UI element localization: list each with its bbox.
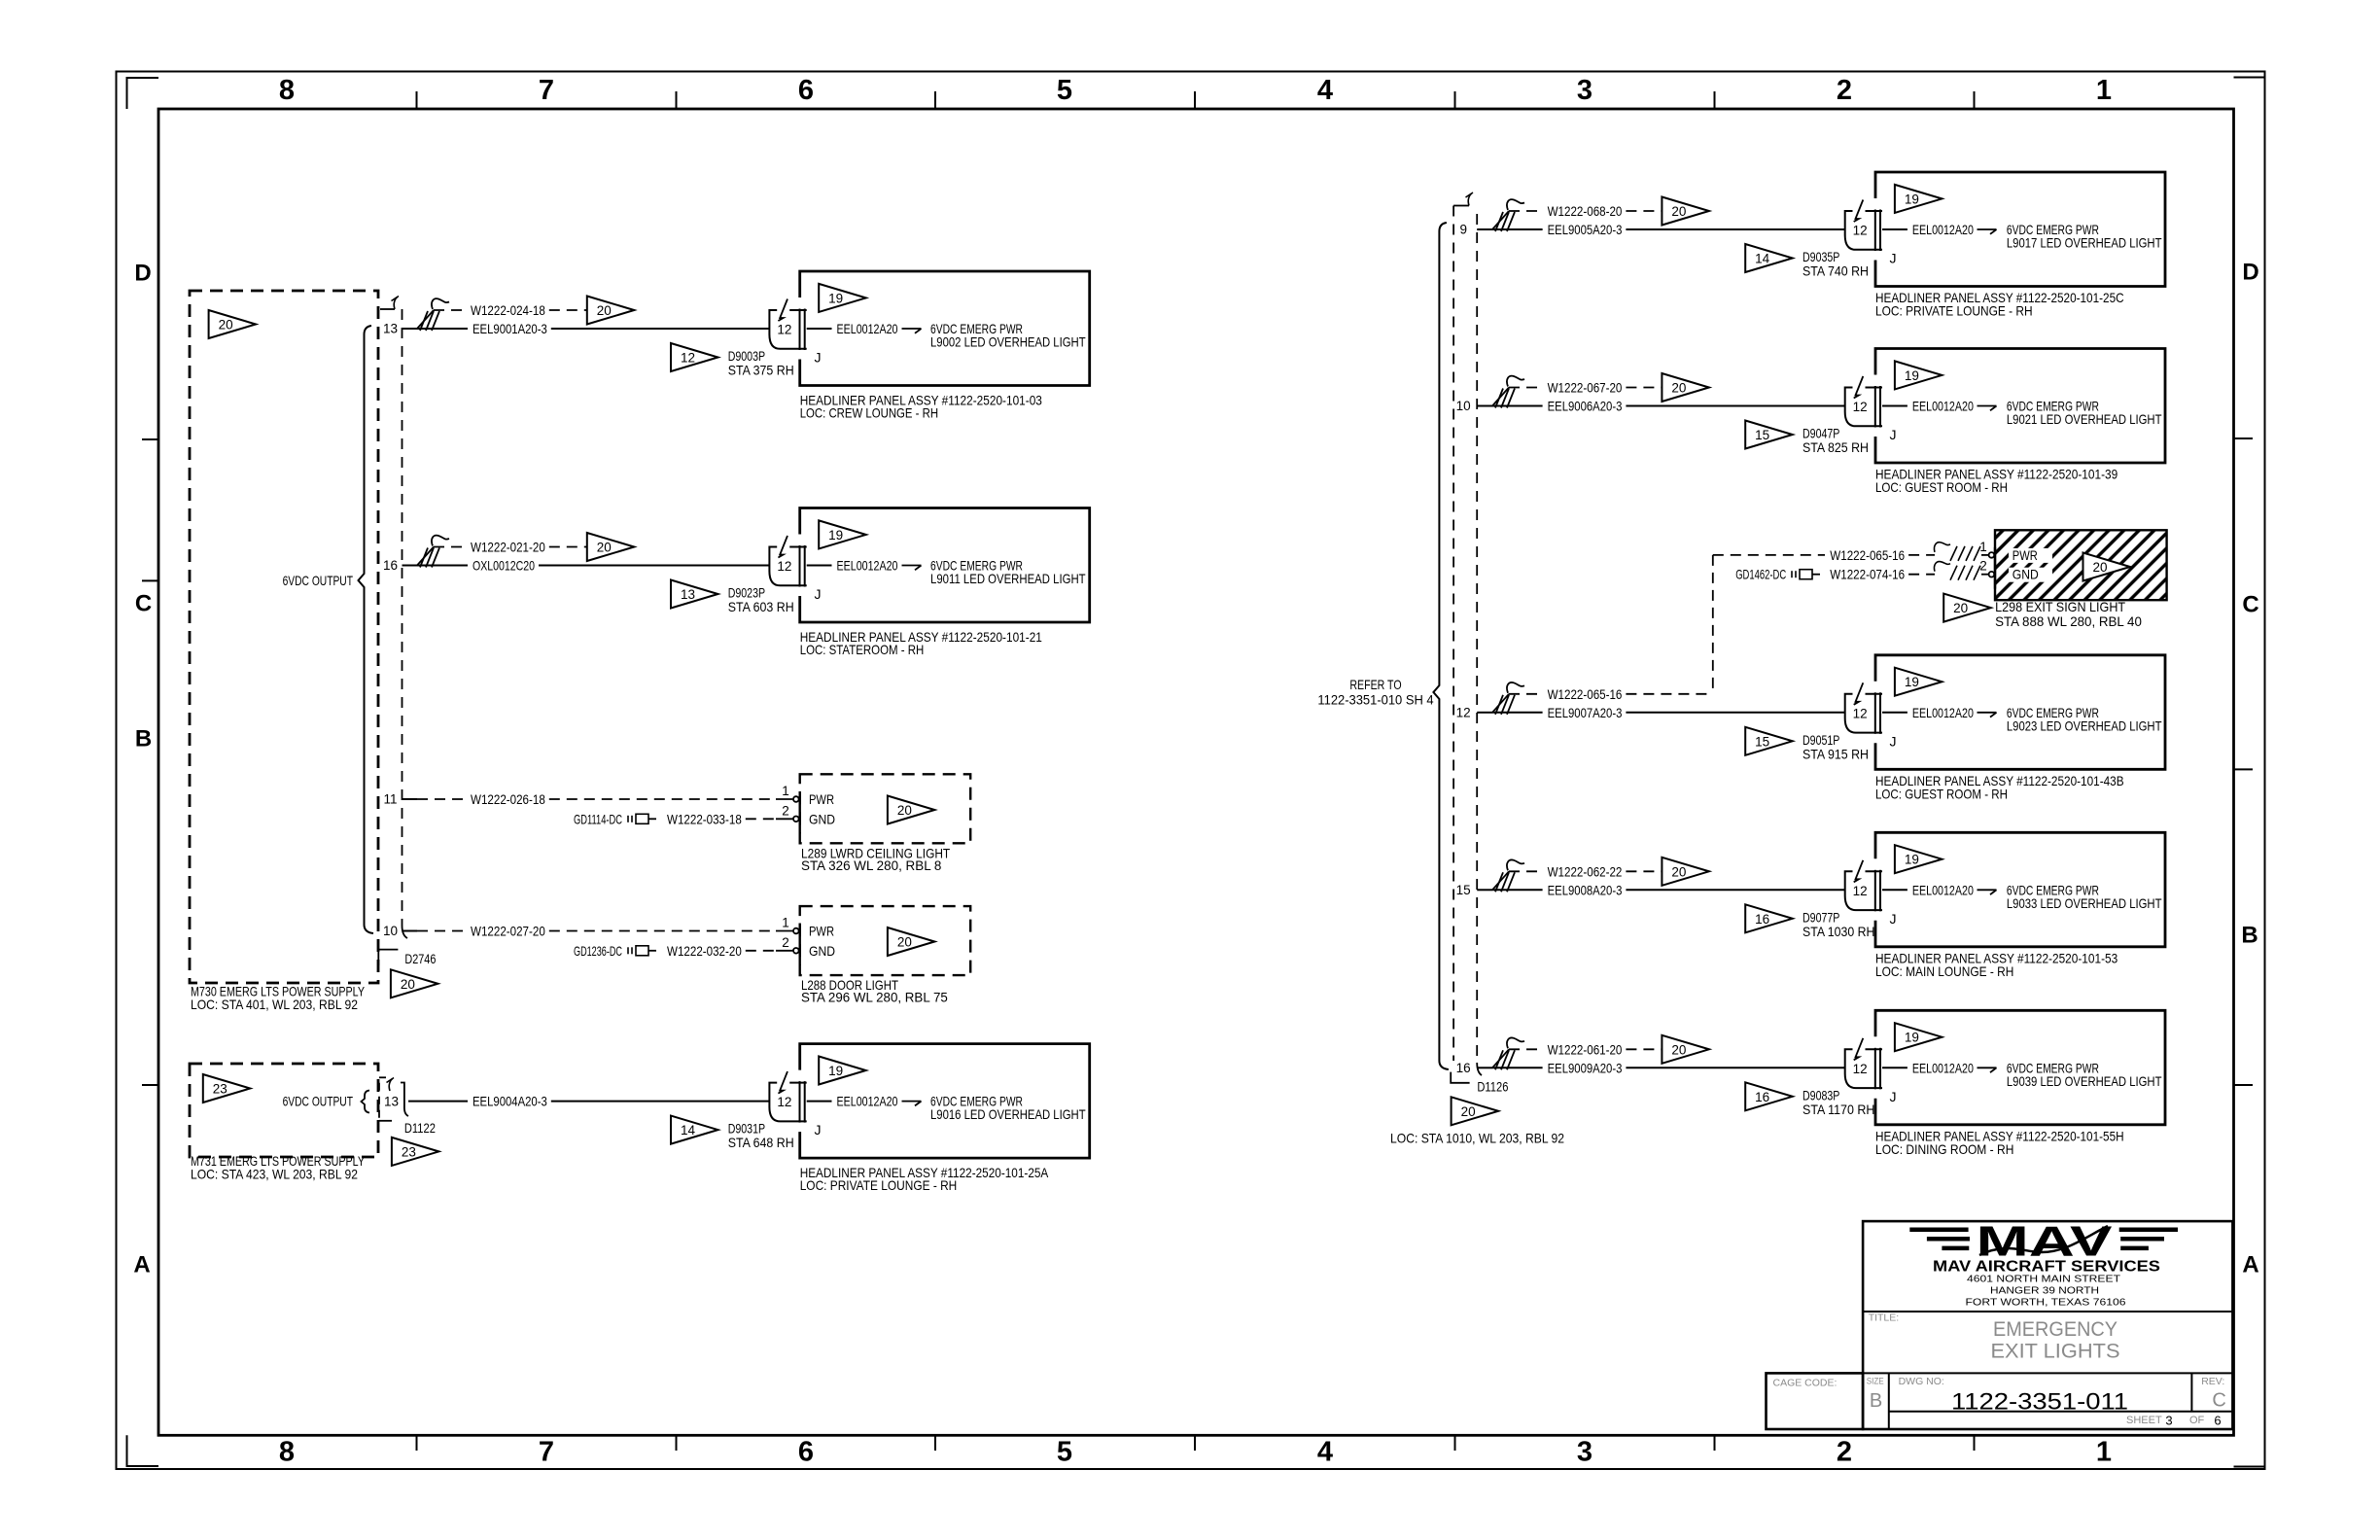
svg-text:L9039 LED OVERHEAD LIGHT: L9039 LED OVERHEAD LIGHT	[2007, 1073, 2162, 1089]
wire EEL9007A20-3 to connector	[1626, 712, 1844, 714]
svg-text:J: J	[815, 586, 822, 602]
bracket close D1122	[401, 1083, 408, 1117]
svg-text:STA 888 WL 280, RBL 40: STA 888 WL 280, RBL 40	[1995, 613, 2142, 629]
svg-text:15: 15	[1755, 428, 1769, 442]
svg-text:1122-3351-010 SH 4: 1122-3351-010 SH 4	[1317, 692, 1433, 708]
power supply M730 box	[190, 291, 378, 983]
headliner panel box L9023	[1875, 655, 2165, 770]
svg-text:EEL0012A20: EEL0012A20	[837, 558, 898, 574]
svg-text:2: 2	[1837, 75, 1852, 106]
svg-text:STA 915 RH: STA 915 RH	[1802, 746, 1869, 761]
wire W1222-026-18 dashed to light	[549, 798, 776, 800]
svg-text:W1222-021-20: W1222-021-20	[471, 540, 545, 555]
svg-text:W1222-067-20: W1222-067-20	[1548, 380, 1623, 396]
shield drain at pin D9083P	[1492, 1049, 1509, 1067]
svg-text:LOC: DINING ROOM - RH: LOC: DINING ROOM - RH	[1875, 1141, 2013, 1157]
svg-text:6VDC OUTPUT: 6VDC OUTPUT	[283, 573, 354, 588]
headliner panel box L9011	[800, 508, 1090, 623]
wire EEL0012A20 from connector	[1882, 228, 1907, 230]
svg-text:PWR: PWR	[809, 791, 834, 807]
connector D9003P pin 12 symbol	[789, 309, 807, 311]
svg-text:16: 16	[383, 558, 398, 573]
flag 15 for D9051P	[1745, 727, 1793, 755]
svg-text:OXL0012C20: OXL0012C20	[472, 558, 535, 574]
svg-text:1: 1	[1979, 540, 1987, 554]
arrow to 6VDC EMERG PWR	[902, 1101, 922, 1102]
wire W1222-033-18 dashed	[746, 818, 776, 820]
wire W1222-067-20 dashed cont	[1626, 387, 1662, 389]
svg-text:STA 326 WL 280, RBL 8: STA 326 WL 280, RBL 8	[801, 857, 942, 873]
arrow to 6VDC EMERG PWR	[1977, 1067, 1997, 1068]
connector D9051P pin 12 symbol	[1866, 693, 1883, 695]
svg-text:J: J	[815, 1122, 822, 1137]
svg-text:L9011 LED OVERHEAD LIGHT: L9011 LED OVERHEAD LIGHT	[930, 571, 1086, 586]
svg-text:19: 19	[1905, 192, 1919, 206]
svg-text:PWR: PWR	[809, 924, 834, 939]
connector D9077P pin 12 symbol	[1866, 870, 1883, 872]
svg-text:12: 12	[777, 559, 791, 574]
svg-text:10: 10	[1456, 399, 1471, 413]
svg-text:MAV AIRCRAFT SERVICES: MAV AIRCRAFT SERVICES	[1933, 1258, 2160, 1275]
wire EEL0012A20 from connector	[807, 328, 832, 330]
svg-text:W1222-033-18: W1222-033-18	[667, 811, 742, 826]
svg-text:12: 12	[1853, 1062, 1868, 1076]
rail top corner break M730	[380, 308, 395, 310]
svg-text:LOC: PRIVATE LOUNGE - RH: LOC: PRIVATE LOUNGE - RH	[1875, 303, 2033, 319]
flag 20 on W1222-062-22	[1662, 857, 1709, 886]
connector D9047P pin 12 symbol	[1866, 387, 1883, 389]
svg-text:4601 NORTH MAIN STREET: 4601 NORTH MAIN STREET	[1967, 1275, 2120, 1285]
svg-text:J: J	[1890, 733, 1897, 749]
right zone tick marks	[2234, 437, 2254, 439]
wire EEL9005A20-3 to connector	[1626, 228, 1844, 230]
flag 12 for D9003P	[671, 343, 718, 371]
svg-text:EEL0012A20: EEL0012A20	[837, 321, 898, 336]
svg-text:12: 12	[1853, 706, 1868, 720]
svg-text:W1222-068-20: W1222-068-20	[1548, 203, 1623, 219]
connector D1126 rail 2	[1476, 214, 1478, 1063]
flag 13 for D9023P	[671, 580, 718, 609]
svg-text:GD1114-DC: GD1114-DC	[574, 811, 622, 826]
flag 14 for D9035P	[1745, 244, 1793, 272]
dwg rev divider	[2190, 1373, 2192, 1411]
svg-text:20: 20	[1671, 381, 1686, 396]
svg-text:12: 12	[1853, 884, 1868, 898]
wire EEL9009A20-3 to connector	[1626, 1067, 1844, 1068]
svg-text:STA 375 RH: STA 375 RH	[728, 363, 794, 378]
svg-text:LOC: STA 1010, WL 203, RBL 92: LOC: STA 1010, WL 203, RBL 92	[1390, 1130, 1564, 1145]
svg-text:1: 1	[2096, 1437, 2112, 1468]
headliner panel box L9033	[1875, 832, 2165, 947]
arrow to 6VDC EMERG PWR	[1977, 228, 1997, 230]
svg-text:20: 20	[597, 541, 612, 555]
wire EEL0012A20 from connector	[1882, 889, 1907, 891]
sheet strip divider	[1889, 1411, 2233, 1413]
flag 20 on W1222-061-20	[1662, 1035, 1709, 1064]
connector D1126 rail 1	[1452, 206, 1454, 1062]
svg-text:20: 20	[401, 977, 415, 992]
flag 20 in M730	[209, 310, 257, 338]
svg-text:12: 12	[1853, 224, 1868, 238]
headliner panel box L9002	[800, 271, 1090, 386]
wire EEL0012A20 from connector	[1882, 405, 1907, 407]
label GND exit	[2009, 568, 2052, 582]
wire W1222-065-16 dashed to corner	[1626, 693, 1712, 695]
svg-text:20: 20	[897, 935, 912, 950]
MAV logo speed lines right	[2119, 1228, 2178, 1233]
svg-text:1: 1	[2096, 75, 2112, 106]
svg-text:EEL9006A20-3: EEL9006A20-3	[1548, 399, 1623, 414]
shield drain at pin D9047P	[1492, 388, 1509, 406]
flag 20 in exit box	[2083, 553, 2131, 581]
svg-text:L9016 LED OVERHEAD LIGHT: L9016 LED OVERHEAD LIGHT	[930, 1106, 1086, 1122]
flag 19 in L9011 box	[819, 520, 866, 548]
headliner panel box L9017	[1875, 172, 2165, 287]
svg-text:LOC: CREW LOUNGE - RH: LOC: CREW LOUNGE - RH	[800, 405, 938, 421]
wire W1222-024-18 dashed cont	[549, 309, 587, 311]
svg-text:20: 20	[897, 803, 912, 818]
svg-text:19: 19	[1905, 853, 1919, 867]
svg-text:W1222-061-20: W1222-061-20	[1548, 1041, 1623, 1057]
svg-text:1: 1	[782, 784, 789, 798]
svg-text:2: 2	[1979, 559, 1987, 574]
svg-text:FORT WORTH, TEXAS 76106: FORT WORTH, TEXAS 76106	[1966, 1298, 2127, 1309]
wire W1222-061-20 dashed	[1509, 1048, 1543, 1050]
svg-text:20: 20	[597, 303, 612, 318]
svg-text:11: 11	[383, 792, 397, 807]
svg-text:10: 10	[383, 924, 398, 938]
shield drain at pin D9051P	[1492, 694, 1509, 713]
flag 15 for D9047P	[1745, 421, 1793, 449]
headliner panel box L9039	[1875, 1010, 2165, 1125]
shield pigtail symbol GD1236-DC	[627, 947, 629, 954]
title block title divider	[1863, 1372, 2232, 1374]
top zone tick marks	[416, 91, 418, 109]
brace 6VDC OUTPUT M730	[359, 326, 374, 933]
brace refer-to D1126	[1433, 223, 1449, 1069]
connector D9083P pin 12 symbol	[1866, 1048, 1883, 1050]
svg-text:EEL9008A20-3: EEL9008A20-3	[1548, 882, 1623, 897]
svg-text:3: 3	[1577, 75, 1592, 106]
flag 20 on W1222-021-20	[587, 533, 635, 561]
svg-text:16: 16	[1755, 912, 1769, 927]
svg-text:L298 EXIT SIGN LIGHT: L298 EXIT SIGN LIGHT	[1995, 599, 2125, 614]
wire W1222-026-18 tail	[776, 798, 792, 800]
svg-text:23: 23	[213, 1082, 227, 1097]
brace pin 13 M731	[362, 1091, 370, 1113]
svg-text:4: 4	[1317, 1437, 1333, 1468]
svg-text:5: 5	[1057, 1437, 1072, 1468]
headliner panel box L9021	[1875, 349, 2165, 464]
wire W1222-032-20 dashed	[746, 950, 776, 952]
svg-text:19: 19	[828, 528, 843, 542]
svg-text:B: B	[2241, 923, 2257, 949]
svg-text:16: 16	[1755, 1090, 1769, 1104]
svg-text:EXIT LIGHTS: EXIT LIGHTS	[1991, 1341, 2120, 1363]
svg-text:J: J	[1890, 427, 1897, 442]
shield drain at pin D9077P	[1492, 871, 1509, 890]
svg-text:19: 19	[828, 291, 843, 305]
svg-text:D1122: D1122	[404, 1120, 436, 1136]
svg-text:B: B	[135, 726, 152, 752]
connector D9023P pin 12 symbol	[789, 546, 807, 548]
pin 13 stub	[402, 328, 418, 330]
svg-text:REFER TO: REFER TO	[1349, 677, 1401, 692]
wire W1222-024-18 dashed	[434, 309, 466, 311]
flag 19 in L9002 box	[819, 284, 866, 312]
rail bottom hook D1126	[1477, 1063, 1482, 1075]
wire W1222-062-22 dashed	[1509, 870, 1543, 872]
svg-text:C: C	[2242, 592, 2258, 618]
svg-text:D2746: D2746	[404, 951, 436, 966]
flag 20 on W1222-068-20	[1662, 197, 1709, 226]
flag 20 on W1222-067-20	[1662, 373, 1709, 402]
svg-text:J: J	[1890, 251, 1897, 266]
wire EEL0012A20 from connector	[807, 1101, 832, 1102]
connector D1126 corner mark	[1451, 1072, 1469, 1083]
shield slashes GND	[1934, 562, 1950, 572]
svg-text:STA 1030 RH: STA 1030 RH	[1802, 924, 1874, 939]
svg-text:14: 14	[681, 1123, 696, 1137]
size box divider	[1888, 1373, 1890, 1429]
svg-text:LOC: STA 401, WL 203, RBL 92: LOC: STA 401, WL 203, RBL 92	[191, 997, 358, 1012]
svg-text:12: 12	[1853, 400, 1868, 414]
wire W1222-067-20 dashed	[1509, 387, 1543, 389]
svg-text:20: 20	[1671, 1042, 1686, 1057]
svg-text:3: 3	[1577, 1437, 1592, 1468]
svg-text:16: 16	[1456, 1061, 1471, 1075]
flag 19 in L9023 box	[1895, 668, 1942, 696]
wire EEL9001A20-3 solid	[417, 328, 468, 330]
rail bottom hook M730	[402, 926, 408, 938]
svg-text:6VDC OUTPUT: 6VDC OUTPUT	[283, 1093, 354, 1108]
svg-text:20: 20	[1953, 601, 1968, 615]
label PWR exit	[2009, 548, 2052, 563]
wire EEL9004A20-3 solid	[408, 1101, 468, 1102]
svg-text:EEL0012A20: EEL0012A20	[1912, 705, 1974, 720]
svg-text:PWR: PWR	[2012, 547, 2038, 563]
svg-text:LOC: GUEST ROOM - RH: LOC: GUEST ROOM - RH	[1875, 479, 2008, 495]
svg-text:6: 6	[798, 1437, 814, 1468]
svg-text:GND: GND	[809, 943, 835, 959]
wire W1222-068-20 dashed	[1509, 210, 1543, 212]
exit sign left edge solid	[1994, 547, 1996, 589]
flag 23 in M731	[203, 1074, 250, 1102]
svg-text:L9023 LED OVERHEAD LIGHT: L9023 LED OVERHEAD LIGHT	[2007, 717, 2162, 733]
pin 15 stub	[1477, 889, 1492, 891]
pin 16 stub	[1477, 1067, 1492, 1068]
corner mark top-right	[2234, 78, 2265, 110]
wire W1222-033-18 tail	[776, 818, 792, 820]
svg-text:15: 15	[1456, 883, 1471, 897]
pin 1 circle	[793, 796, 799, 802]
svg-text:EEL0012A20: EEL0012A20	[1912, 882, 1974, 897]
svg-text:23: 23	[402, 1144, 416, 1159]
bottom zone tick marks	[416, 1435, 418, 1451]
svg-text:6: 6	[798, 75, 814, 106]
svg-text:STA 825 RH: STA 825 RH	[1802, 439, 1869, 455]
svg-text:STA 296 WL 280, RBL 75: STA 296 WL 280, RBL 75	[801, 990, 948, 1005]
svg-text:5: 5	[1057, 75, 1072, 106]
flag 19 in L9033 box	[1895, 845, 1942, 873]
wire W1222-032-20 tail	[776, 950, 792, 952]
shield pigtail symbol GD1114-DC	[627, 816, 629, 822]
svg-text:D: D	[134, 261, 151, 287]
svg-text:W1222-065-16: W1222-065-16	[1830, 547, 1905, 563]
pin 11 stub	[402, 798, 418, 800]
pin 12 stub	[1477, 712, 1492, 714]
svg-text:EEL0012A20: EEL0012A20	[1912, 222, 1974, 237]
svg-text:OF: OF	[2189, 1415, 2205, 1426]
connector D9035P pin 12 symbol	[1866, 210, 1883, 212]
svg-text:13: 13	[384, 1095, 399, 1109]
headliner panel box L9016	[800, 1044, 1090, 1159]
wire dashed after label GND	[1908, 574, 1935, 576]
flag 19 in L9017 box	[1895, 185, 1942, 213]
svg-text:D: D	[2242, 260, 2258, 286]
pin 2 circle exit	[1989, 572, 1995, 577]
flag 16 for D9077P	[1745, 904, 1793, 932]
corner mark bottom-left	[127, 1435, 159, 1466]
wire W1222-027-20 tail	[776, 930, 792, 932]
pin 1 circle exit	[1989, 552, 1995, 558]
wire W1222-027-20 dashed to light	[549, 930, 776, 932]
flag 23 below M731	[392, 1137, 439, 1166]
svg-text:STA 740 RH: STA 740 RH	[1802, 263, 1869, 279]
power supply M731 box	[190, 1064, 378, 1157]
corner mark top-left	[127, 78, 159, 109]
svg-text:W1222-024-18: W1222-024-18	[471, 302, 545, 318]
svg-text:1122-3351-011: 1122-3351-011	[1951, 1388, 2128, 1415]
svg-text:STA 1170 RH: STA 1170 RH	[1802, 1102, 1874, 1117]
svg-text:3: 3	[2165, 1414, 2172, 1428]
wire W1222-065-16 vertical dashed	[1712, 555, 1714, 694]
wire EEL9001A20-3 to connector	[551, 328, 770, 330]
shield drain at pin D9003P	[417, 310, 434, 329]
svg-text:A: A	[2242, 1252, 2258, 1278]
svg-text:6: 6	[2214, 1414, 2221, 1428]
svg-text:EEL9005A20-3: EEL9005A20-3	[1548, 222, 1623, 237]
svg-text:12: 12	[777, 323, 791, 337]
svg-text:EEL0012A20: EEL0012A20	[837, 1094, 898, 1109]
svg-text:J: J	[1890, 1089, 1897, 1104]
svg-text:LOC: GUEST ROOM - RH: LOC: GUEST ROOM - RH	[1875, 786, 2008, 801]
svg-text:W1222-074-16: W1222-074-16	[1830, 567, 1905, 582]
arrow to 6VDC EMERG PWR	[1977, 889, 1997, 891]
flag 20 in L289 LWRD CEILING LIGHT	[888, 796, 935, 824]
connector D9031P pin 12 symbol	[789, 1082, 807, 1084]
MAV logo speed lines left	[1909, 1228, 1968, 1233]
svg-text:12: 12	[1456, 705, 1471, 719]
svg-text:GD1236-DC: GD1236-DC	[574, 943, 622, 959]
svg-text:C: C	[135, 591, 152, 617]
shield drain at pin D9035P	[1492, 211, 1509, 229]
svg-text:12: 12	[681, 351, 695, 366]
svg-text:W1222-062-22: W1222-062-22	[1548, 863, 1623, 879]
wire EEL9008A20-3 solid	[1492, 889, 1543, 891]
svg-text:2: 2	[782, 935, 789, 950]
rail top corner break D1126	[1453, 205, 1469, 207]
flag 20 in L288 DOOR LIGHT	[888, 927, 935, 956]
arrow to 6VDC EMERG PWR	[902, 565, 922, 567]
flag 20 at L298 label	[1943, 594, 1991, 622]
svg-text:L9017 LED OVERHEAD LIGHT: L9017 LED OVERHEAD LIGHT	[2007, 235, 2162, 251]
svg-text:STA 603 RH: STA 603 RH	[728, 599, 794, 614]
pin 10 stub	[1477, 405, 1492, 407]
wire EEL9005A20-3 solid	[1492, 228, 1543, 230]
pin 2 circle	[793, 817, 799, 822]
svg-text:TITLE:: TITLE:	[1869, 1312, 1900, 1324]
svg-text:W1222-065-16: W1222-065-16	[1548, 686, 1623, 702]
svg-text:CAGE CODE:: CAGE CODE:	[1773, 1377, 1837, 1388]
wire W1222-065-16 dashed	[1509, 693, 1543, 695]
svg-text:SHEET: SHEET	[2126, 1415, 2162, 1426]
svg-text:2: 2	[782, 803, 789, 818]
shield pigtail symbol GD1462-DC	[1791, 571, 1793, 577]
svg-text:19: 19	[828, 1064, 843, 1078]
svg-text:W1222-032-20: W1222-032-20	[667, 943, 742, 959]
wire W1222-068-20 dashed cont	[1626, 210, 1662, 212]
flag 16 for D9083P	[1745, 1082, 1793, 1110]
svg-text:GND: GND	[2012, 567, 2039, 582]
flag 19 in L9039 box	[1895, 1023, 1942, 1051]
wire EEL9006A20-3 solid	[1492, 405, 1543, 407]
svg-text:2: 2	[1837, 1437, 1852, 1468]
svg-text:A: A	[133, 1252, 150, 1278]
svg-text:EMERGENCY: EMERGENCY	[1993, 1318, 2117, 1341]
light box L288 DOOR LIGHT dashed	[800, 906, 971, 975]
exit sign hatched box L298	[1995, 530, 2167, 600]
connector D2746 corner mark	[378, 950, 398, 965]
wire W1222-021-20 dashed	[434, 546, 466, 548]
svg-text:8: 8	[279, 1437, 295, 1468]
svg-text:1: 1	[782, 916, 789, 930]
svg-text:DWG NO:: DWG NO:	[1899, 1376, 1944, 1387]
shield slashes PWR	[1934, 542, 1950, 552]
corner mark bottom-right	[2234, 1435, 2265, 1466]
svg-text:LOC: PRIVATE LOUNGE - RH: LOC: PRIVATE LOUNGE - RH	[800, 1177, 958, 1193]
pin 2 circle	[793, 948, 799, 954]
svg-text:20: 20	[2092, 560, 2107, 575]
wire W1222-027-20 dashed	[417, 930, 466, 932]
wire EEL9007A20-3 solid	[1492, 712, 1543, 714]
svg-text:L9033 LED OVERHEAD LIGHT: L9033 LED OVERHEAD LIGHT	[2007, 895, 2162, 911]
wire W1222-021-20 dashed cont	[549, 546, 587, 548]
svg-text:W1222-026-18: W1222-026-18	[471, 791, 545, 807]
svg-text:EEL9009A20-3: EEL9009A20-3	[1548, 1060, 1623, 1075]
inner drawing frame	[158, 109, 2234, 1435]
wire W1222-061-20 dashed cont	[1626, 1048, 1662, 1050]
flag 20 below D1126	[1452, 1097, 1499, 1125]
svg-text:20: 20	[1461, 1104, 1476, 1119]
flag 14 for D9031P	[671, 1116, 718, 1144]
svg-text:13: 13	[681, 587, 695, 602]
wire EEL0012A20 from connector	[807, 565, 832, 567]
svg-text:EEL9007A20-3: EEL9007A20-3	[1548, 705, 1623, 720]
svg-text:C: C	[2212, 1390, 2225, 1412]
svg-text:19: 19	[1905, 1031, 1919, 1045]
flag 19 in L9016 box	[819, 1057, 866, 1085]
title block outer box	[1863, 1221, 2232, 1429]
svg-text:GND: GND	[809, 811, 835, 826]
svg-text:LOC: STATEROOM - RH: LOC: STATEROOM - RH	[800, 642, 925, 657]
svg-text:9: 9	[1459, 223, 1467, 237]
svg-text:20: 20	[1671, 864, 1686, 879]
pin 9 stub	[1477, 228, 1492, 230]
arrow to 6VDC EMERG PWR	[902, 328, 922, 330]
light box L289 LWRD CEILING LIGHT left edge solid	[799, 791, 801, 833]
svg-text:LOC: STA 423, WL 203, RBL 92: LOC: STA 423, WL 203, RBL 92	[191, 1166, 358, 1181]
